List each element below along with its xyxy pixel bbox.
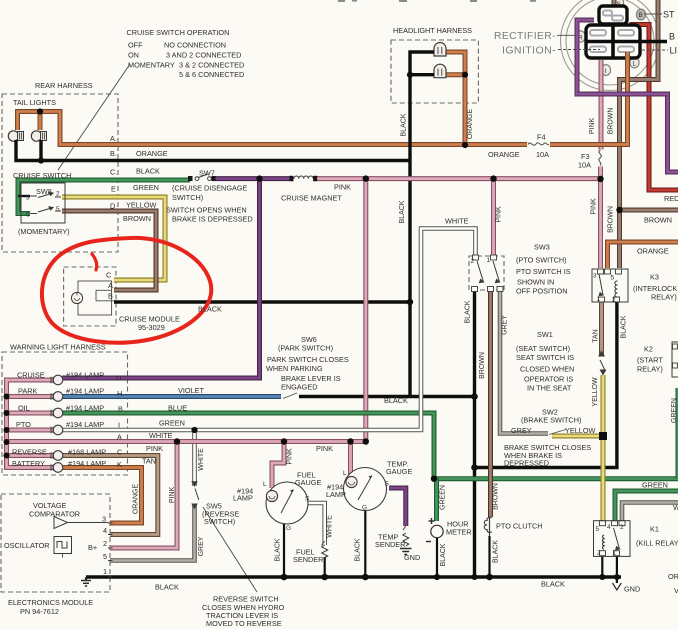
K1 contact xyxy=(614,528,620,550)
svg-text:1: 1 xyxy=(103,567,107,576)
SW8 cruise switch box xyxy=(21,183,65,223)
svg-text:ST: ST xyxy=(663,10,675,20)
rear harness dashed box xyxy=(2,94,118,252)
wire violet junction down to cruise lamp row D xyxy=(62,179,260,378)
K1 kill relay box xyxy=(594,521,631,557)
wire blue park lamp row H to SW6 xyxy=(62,394,281,399)
svg-text:B+: B+ xyxy=(88,543,97,552)
cruise module internals xyxy=(78,281,114,315)
wire green right edge to K1 xyxy=(615,491,678,521)
ignition terminal I xyxy=(601,65,610,76)
svg-text:2: 2 xyxy=(620,524,624,531)
svg-text:B: B xyxy=(108,292,113,301)
svg-text:PTO SWITCH IS: PTO SWITCH IS xyxy=(516,267,571,276)
svg-text:(SEAT SWITCH): (SEAT SWITCH) xyxy=(516,344,570,353)
wire orange tail lights loop and row A to fuse F4 xyxy=(18,112,529,145)
svg-text:C: C xyxy=(106,271,111,280)
svg-text:BLACK: BLACK xyxy=(541,580,565,589)
SW3 dashed box xyxy=(469,256,504,290)
svg-text:2: 2 xyxy=(597,550,601,557)
wire grey right edge to K1 xyxy=(622,503,678,521)
svg-text:ORANGE: ORANGE xyxy=(637,247,669,256)
wire pink warning harness left bus xyxy=(7,380,54,468)
svg-text:10A: 10A xyxy=(578,161,591,170)
svg-text:GREEN: GREEN xyxy=(440,485,447,510)
svg-text:IN THE SEAT: IN THE SEAT xyxy=(527,384,572,393)
electronics module pin ticks xyxy=(108,523,113,577)
svg-text:COMPARATOR: COMPARATOR xyxy=(29,510,80,519)
SW1 seat switch contact xyxy=(599,351,606,374)
label TEMP GAUGE xyxy=(386,460,412,477)
svg-text:PINK: PINK xyxy=(146,444,163,453)
svg-text:H: H xyxy=(117,389,122,398)
svg-text:PTO: PTO xyxy=(16,420,31,429)
SW6 park switch contact xyxy=(283,393,297,399)
svg-text:ORANGE: ORANGE xyxy=(133,484,140,515)
SW3 pin squares xyxy=(472,255,504,292)
cruise magnet coil xyxy=(290,176,318,181)
wire black SW3 pin3 down to ground bus xyxy=(473,290,476,577)
headlight bulb 2 xyxy=(434,64,446,78)
svg-text:ORANGE: ORANGE xyxy=(467,109,474,140)
label VOLTAGE COMPARATOR xyxy=(29,501,80,519)
ignition terminal L xyxy=(630,57,639,68)
label SW5 note xyxy=(202,502,239,527)
svg-text:YELLOW: YELLOW xyxy=(126,201,157,210)
wire black K1 pin1 to bus and GND xyxy=(616,556,618,583)
K3 coil xyxy=(615,281,618,297)
svg-text:TAN: TAN xyxy=(142,457,156,466)
warning lamp BATTERY xyxy=(51,463,63,473)
svg-text:2: 2 xyxy=(103,539,107,548)
cruise switch operation note xyxy=(127,28,245,79)
svg-text:W: W xyxy=(673,503,678,512)
K3 interlock relay box xyxy=(592,269,628,302)
svg-text:5 & 6 CONNECTED: 5 & 6 CONNECTED xyxy=(179,70,244,79)
module pin numbers xyxy=(102,515,107,577)
svg-text:WHEN PARKING: WHEN PARKING xyxy=(266,364,323,373)
comparator line to pin 3 xyxy=(68,522,109,524)
svg-text:BLACK: BLACK xyxy=(384,396,408,405)
svg-text:RELAY): RELAY) xyxy=(637,365,663,374)
svg-text:2: 2 xyxy=(612,297,616,304)
svg-text:WHITE: WHITE xyxy=(198,448,205,471)
temp gauge lamp xyxy=(346,476,357,487)
svg-text:LAMP: LAMP xyxy=(233,494,253,503)
svg-text:BLACK: BLACK xyxy=(621,315,628,338)
wire brown ignition to K3 pin5 and right-edge branch xyxy=(620,0,678,268)
svg-text:LI: LI xyxy=(670,46,678,56)
svg-text:V: V xyxy=(674,586,678,595)
svg-text:NO CONNECTION: NO CONNECTION xyxy=(164,41,226,50)
svg-text:BLACK: BLACK xyxy=(465,300,472,323)
svg-text:PINK: PINK xyxy=(316,444,333,453)
warning wire color labels xyxy=(142,386,333,466)
label GREY and YELLOW at SW2 xyxy=(511,426,596,435)
svg-text:MOMENTARY: MOMENTARY xyxy=(128,61,175,70)
wire black PTO clutch to bus xyxy=(488,536,490,577)
label TEMP SENDER xyxy=(375,533,405,550)
svg-text:SW1: SW1 xyxy=(537,330,553,339)
wire pink row A xyxy=(7,439,366,444)
wire tan K3 pin1 down to seat switch SW1 xyxy=(599,302,604,356)
ignition terminal B xyxy=(636,9,645,20)
svg-text:BROWN: BROWN xyxy=(493,483,500,510)
svg-text:(START: (START xyxy=(637,356,663,365)
svg-text:B: B xyxy=(669,32,675,42)
label K1 xyxy=(636,525,678,548)
svg-text:G: G xyxy=(286,525,291,532)
svg-text:GAUGE: GAUGE xyxy=(386,467,412,476)
svg-text:1: 1 xyxy=(597,296,601,303)
wire pink cruise magnet junction down to warning row A xyxy=(363,179,368,442)
wire green right edge vertical xyxy=(676,388,678,479)
wire fuel sender to bus xyxy=(324,557,326,577)
wire pink row A to electronics module pin 2 xyxy=(110,442,177,549)
label K2 xyxy=(637,345,663,374)
label SW6 note xyxy=(266,335,349,392)
svg-text:CRUISE: CRUISE xyxy=(17,371,45,380)
svg-text:L: L xyxy=(343,470,347,477)
K3 pin squares xyxy=(598,269,622,302)
svg-text:5: 5 xyxy=(56,206,60,213)
svg-text:GND: GND xyxy=(624,585,640,594)
svg-text:A: A xyxy=(108,281,113,290)
rotated wire labels xyxy=(133,108,678,567)
wire green branch to hour meter plus xyxy=(434,479,439,521)
label F4 10A xyxy=(536,133,549,160)
svg-text:BROWN: BROWN xyxy=(479,352,486,379)
comparator triangle xyxy=(54,517,68,529)
wire brown SW3 pin down to PTO clutch xyxy=(488,290,493,517)
svg-text:BROWN: BROWN xyxy=(608,206,615,233)
svg-text:PTO CLUTCH: PTO CLUTCH xyxy=(496,522,543,531)
label CRUISE MODULE xyxy=(119,315,180,333)
SW7 cruise disengage switch xyxy=(188,174,216,181)
svg-text:CLOSED WHEN: CLOSED WHEN xyxy=(520,365,574,374)
wire orange battery lamp row to electronics module pin 3 xyxy=(62,468,142,524)
svg-text:BROWN: BROWN xyxy=(123,214,151,223)
SW8 contacts xyxy=(30,192,61,213)
svg-text:K1: K1 xyxy=(650,525,659,534)
svg-text:B: B xyxy=(639,12,643,19)
wire orange fuse F4 to ignition L xyxy=(549,52,628,145)
svg-text:3: 3 xyxy=(102,515,106,524)
wire pink cruise magnet to fuse F3 row xyxy=(313,176,601,181)
wire pink row A down to fuel gauge lamp xyxy=(272,442,284,489)
ground symbol electronics module xyxy=(81,577,91,586)
svg-text:OIL: OIL xyxy=(18,404,30,413)
svg-text:(MOMENTARY): (MOMENTARY) xyxy=(18,227,70,236)
svg-text:PINK: PINK xyxy=(589,118,596,135)
warning lamp PTO xyxy=(51,425,63,435)
svg-text:SW3: SW3 xyxy=(534,243,550,252)
SW3 contacts xyxy=(477,261,500,283)
svg-text:BLACK: BLACK xyxy=(355,538,362,561)
svg-text:A: A xyxy=(117,433,122,442)
svg-text:#194 LAMP: #194 LAMP xyxy=(68,459,106,468)
svg-text:I: I xyxy=(118,421,120,430)
svg-text:#194 LAMP: #194 LAMP xyxy=(66,371,104,380)
wire green bus horizontal to right edge xyxy=(434,476,678,481)
wire orange right edge to K3 xyxy=(608,242,678,268)
warning lamp part labels xyxy=(66,371,106,469)
svg-text:SWITCH): SWITCH) xyxy=(172,193,203,202)
svg-text:TAN: TAN xyxy=(593,329,600,342)
svg-text:SEAT SWITCH IS: SEAT SWITCH IS xyxy=(516,353,574,362)
svg-text:(PTO SWITCH): (PTO SWITCH) xyxy=(516,256,567,265)
svg-text:MOVED TO REVERSE: MOVED TO REVERSE xyxy=(206,619,282,628)
leader line RECTIFIER xyxy=(557,34,575,36)
svg-text:A.: A. xyxy=(110,134,117,143)
svg-text:PINK: PINK xyxy=(287,448,294,465)
gauge terminal letters xyxy=(263,470,389,532)
pointer line from SW5 area to reverse-switch note xyxy=(203,507,257,592)
reverse switch note xyxy=(202,595,285,629)
svg-text:GREEN: GREEN xyxy=(159,419,185,428)
wire grey SW5 to electronics module pin 5 xyxy=(110,504,195,561)
svg-text:BLACK: BLACK xyxy=(136,167,160,176)
electronics module dashed box xyxy=(1,494,110,592)
svg-text:RELAY): RELAY) xyxy=(651,293,677,302)
label FUEL SENDER xyxy=(293,548,323,565)
leader line IGNITION dashed xyxy=(558,49,600,51)
svg-text:1: 1 xyxy=(613,550,617,557)
cruise module dashed box xyxy=(64,267,116,326)
label HOUR METER xyxy=(446,520,472,537)
cruise module terminal letters xyxy=(106,271,113,301)
svg-text:(KILL RELAY): (KILL RELAY) xyxy=(636,539,678,548)
svg-text:GND: GND xyxy=(404,553,420,562)
SW2 brake switch contact xyxy=(549,430,566,435)
svg-text:B.: B. xyxy=(110,149,117,158)
SW2 note text xyxy=(504,443,591,468)
wire pink junction down to SW3 pin1 xyxy=(491,179,496,256)
svg-text:#194 LAMP: #194 LAMP xyxy=(66,387,104,396)
svg-text:CRUISE MAGNET: CRUISE MAGNET xyxy=(281,194,342,203)
svg-text:BLACK: BLACK xyxy=(399,200,406,223)
warning lamp PARK xyxy=(51,392,63,402)
fuse F4 xyxy=(527,139,550,150)
svg-text:#194 LAMP: #194 LAMP xyxy=(66,404,104,413)
wire black cruise module row xyxy=(114,300,410,303)
wire green oil lamp row B to green bus xyxy=(62,413,434,479)
leader line ST xyxy=(644,13,662,15)
pointer line from cruise text to cruise switch xyxy=(58,64,130,170)
svg-text:PN 94-7612: PN 94-7612 xyxy=(20,607,59,616)
wire black K3 pin2 to seat-circuit row xyxy=(475,302,617,468)
svg-text:BROWN: BROWN xyxy=(608,108,615,135)
tail light bulb 2 xyxy=(31,131,46,141)
cruise module lamp xyxy=(71,292,82,303)
headlight bulb 1 xyxy=(434,43,446,56)
svg-text:ORANGE: ORANGE xyxy=(136,149,168,158)
K1 pin squares xyxy=(600,521,626,556)
svg-text:5: 5 xyxy=(103,552,107,561)
wire black K1 pin2 to bus xyxy=(601,556,603,577)
svg-text:BLACK: BLACK xyxy=(155,583,179,592)
cut-off labels bottom right xyxy=(668,503,678,595)
svg-text:OFF POSITION: OFF POSITION xyxy=(516,287,567,296)
red hand-drawn circle around cruise module xyxy=(42,238,211,343)
svg-text:PINK: PINK xyxy=(496,206,503,223)
tail light bulb 1 xyxy=(8,131,23,141)
svg-text:WHITE: WHITE xyxy=(327,515,334,538)
wire white PTO lamp row I up to SW3 pin2 xyxy=(62,229,476,431)
label SW2 note xyxy=(521,408,581,425)
svg-text:REVERSE: REVERSE xyxy=(12,448,47,457)
wire red ignition B to right edge xyxy=(632,25,678,191)
top edge cut-off glyph remnants xyxy=(338,0,536,2)
headlight harness dashed box xyxy=(391,40,478,103)
svg-text:HEADLIGHT HARNESS: HEADLIGHT HARNESS xyxy=(393,26,472,35)
svg-text:K: K xyxy=(117,460,122,469)
svg-text:GREEN: GREEN xyxy=(671,398,678,423)
svg-text:BLACK: BLACK xyxy=(198,305,222,314)
svg-text:3: 3 xyxy=(26,195,30,202)
svg-text:RECTIFIER-: RECTIFIER- xyxy=(494,30,556,42)
ignition terminal R xyxy=(576,31,586,42)
svg-text:SWITCH OPENS WHEN: SWITCH OPENS WHEN xyxy=(166,206,247,215)
svg-text:K3: K3 xyxy=(650,273,659,282)
svg-text:IGNITION-: IGNITION- xyxy=(502,45,556,57)
svg-text:SW7: SW7 xyxy=(199,169,215,178)
svg-text:GREY: GREY xyxy=(502,315,509,335)
svg-text:BROWN: BROWN xyxy=(644,216,672,225)
wire black ground bus xyxy=(86,575,621,578)
svg-text:5: 5 xyxy=(596,526,600,533)
svg-text:6: 6 xyxy=(26,212,30,219)
fuel gauge lamp xyxy=(266,490,277,501)
svg-text:10A: 10A xyxy=(536,150,549,159)
svg-text:F4: F4 xyxy=(537,133,546,142)
svg-text:S: S xyxy=(385,481,389,488)
wire name labels left rows xyxy=(123,149,168,223)
svg-text:5: 5 xyxy=(611,275,615,282)
svg-text:L: L xyxy=(633,61,637,68)
rear harness terminal letters xyxy=(110,134,117,211)
svg-text:S: S xyxy=(305,496,309,503)
K1 coil xyxy=(603,535,604,549)
svg-text:PINK: PINK xyxy=(169,487,176,504)
wire black hour meter to bus xyxy=(436,538,438,577)
svg-text:4: 4 xyxy=(103,526,107,535)
svg-text:OSCILLATOR: OSCILLATOR xyxy=(4,541,50,550)
warning lamp REVERSE xyxy=(51,451,63,461)
label K3 xyxy=(633,273,677,302)
svg-text:PINK: PINK xyxy=(591,198,598,215)
svg-text:YELLOW: YELLOW xyxy=(592,377,599,407)
svg-text:CRUISE SWITCH: CRUISE SWITCH xyxy=(13,171,71,180)
svg-text:3 & 2 CONNECTED: 3 & 2 CONNECTED xyxy=(179,61,244,70)
label F3 10A xyxy=(578,152,591,170)
fuel gauge xyxy=(266,482,308,524)
svg-text:SHOWN IN: SHOWN IN xyxy=(517,278,554,287)
svg-text:WARNING LIGHT HARNESS: WARNING LIGHT HARNESS xyxy=(10,343,106,352)
svg-text:BLACK: BLACK xyxy=(440,543,447,566)
K3 pin numbers xyxy=(593,273,616,304)
temp lamp label xyxy=(326,483,346,500)
wire violet SW7 to cruise magnet xyxy=(213,176,292,181)
svg-text:LAMP: LAMP xyxy=(326,490,346,499)
temp gauge xyxy=(344,468,387,511)
svg-text:E: E xyxy=(111,185,116,194)
svg-text:GAUGE: GAUGE xyxy=(295,478,321,487)
svg-text:G: G xyxy=(362,505,367,512)
label ELECTRONICS MODULE xyxy=(8,598,93,616)
svg-text:ENGAGED: ENGAGED xyxy=(281,383,318,392)
ignition switch grey slot details xyxy=(590,11,634,53)
svg-text:YELLOW: YELLOW xyxy=(565,426,596,435)
wire white fuel gauge S to fuel sender xyxy=(308,503,325,545)
svg-text:GREEN: GREEN xyxy=(642,481,668,490)
svg-text:RED: RED xyxy=(664,194,678,203)
ignition switch body (circles) xyxy=(561,0,660,91)
svg-text:3 AND 2 CONNECTED: 3 AND 2 CONNECTED xyxy=(166,51,241,60)
svg-text:SW8: SW8 xyxy=(36,187,52,196)
hour meter xyxy=(426,518,443,542)
svg-text:95-3029: 95-3029 xyxy=(138,323,165,332)
svg-text:2: 2 xyxy=(56,191,60,198)
svg-text:PARK: PARK xyxy=(18,387,37,396)
wire yellow SW2 blade to yellow vertical xyxy=(552,434,603,439)
wire tan reverse lamp row C to electronics module pin 4 xyxy=(62,456,158,535)
fuel sender resistor xyxy=(322,541,328,558)
wire black temp gauge G to bus xyxy=(364,510,366,577)
wire pink ignition I to fuse F3 xyxy=(599,60,604,150)
svg-text:GREEN: GREEN xyxy=(133,183,159,192)
wire pink row A down to temp gauge lamp xyxy=(348,442,353,478)
label FUEL GAUGE xyxy=(295,471,321,488)
wire black park switch to SW3 vertical xyxy=(299,395,475,398)
label SW1 note xyxy=(516,330,574,393)
wire purple ignition horizontal (over crossings) xyxy=(577,92,668,97)
K2 start relay box (cut at edge) xyxy=(672,342,678,377)
svg-text:SENDER: SENDER xyxy=(293,555,323,564)
svg-text:OR: OR xyxy=(668,572,678,581)
svg-text:PARK SWITCH CLOSES: PARK SWITCH CLOSES xyxy=(267,355,349,364)
svg-text:#168 LAMP: #168 LAMP xyxy=(68,448,106,457)
svg-text:WHITE: WHITE xyxy=(149,431,173,440)
svg-text:DEPRESSED: DEPRESSED xyxy=(504,459,549,468)
svg-text:GREY: GREY xyxy=(198,536,205,556)
wire violet temp gauge S to temp sender xyxy=(389,488,406,526)
wire yellow SW1 down through SW2 junction to K1 xyxy=(601,375,606,521)
svg-text:REAR HARNESS: REAR HARNESS xyxy=(35,81,93,90)
svg-text:OFF: OFF xyxy=(128,41,143,50)
wire brown ignition S stub xyxy=(612,0,617,9)
svg-text:BRAKE IS DEPRESSED: BRAKE IS DEPRESSED xyxy=(172,215,253,224)
svg-text:3: 3 xyxy=(593,273,597,280)
svg-text:#194 LAMP: #194 LAMP xyxy=(66,420,104,429)
svg-text:BLUE: BLUE xyxy=(168,404,187,413)
svg-text:B: B xyxy=(118,405,123,414)
svg-text:BATTERY: BATTERY xyxy=(12,459,45,468)
svg-text:(PARK SWITCH): (PARK SWITCH) xyxy=(278,344,333,353)
svg-text:TAIL LIGHTS: TAIL LIGHTS xyxy=(13,98,56,107)
wire black headlight harness vertical xyxy=(410,52,434,397)
wire purple ignition R to right edge xyxy=(577,20,678,172)
warning light harness dashed box xyxy=(2,352,128,475)
wire yellow SW8 pin2 to cruise module C xyxy=(62,197,165,280)
label SW3 note xyxy=(516,243,571,296)
svg-text:BLACK: BLACK xyxy=(401,113,408,136)
svg-text:1: 1 xyxy=(487,257,491,264)
fuel lamp label xyxy=(233,487,253,503)
ignition terminal S xyxy=(614,0,623,8)
ground symbol temp sender xyxy=(400,549,412,555)
K1 pin numbers xyxy=(596,524,625,557)
